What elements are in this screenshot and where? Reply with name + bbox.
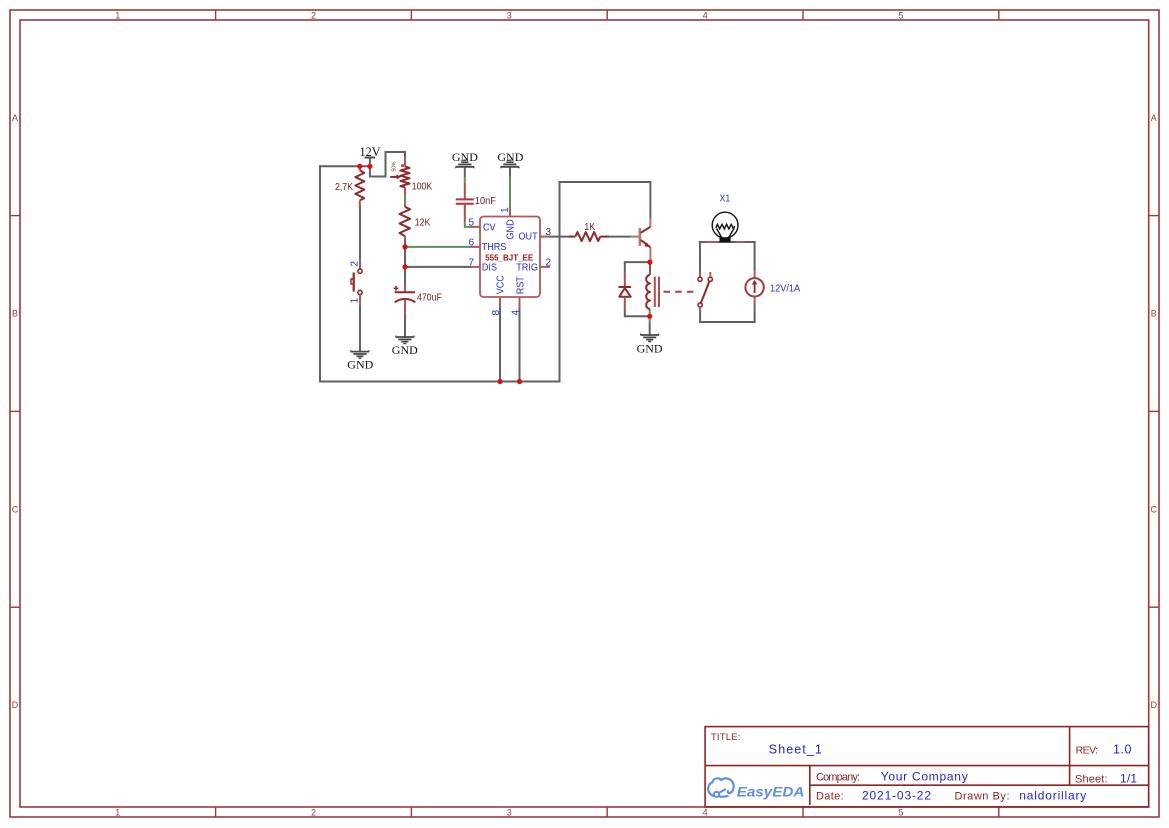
- svg-text:GND: GND: [347, 358, 373, 372]
- title block: [705, 727, 1149, 807]
- svg-text:Company:: Company:: [816, 771, 860, 783]
- svg-text:2: 2: [546, 257, 552, 268]
- svg-text:2: 2: [311, 808, 316, 818]
- wire 1K to base: [609, 236, 631, 238]
- svg-text:3: 3: [546, 227, 552, 238]
- wire bottom rail: [320, 381, 560, 383]
- wire coil top stub: [649, 262, 651, 272]
- svg-text:3: 3: [507, 11, 512, 21]
- svg-text:EasyEDA: EasyEDA: [737, 784, 805, 799]
- resistor 12K: [400, 207, 411, 236]
- IC U1 555 timer body: [480, 217, 540, 298]
- net labels GND: [347, 150, 663, 372]
- svg-text:B: B: [1151, 309, 1157, 319]
- svg-text:1: 1: [349, 298, 360, 304]
- junction dots: [357, 164, 652, 384]
- wire right feedback rail: [559, 182, 561, 382]
- svg-text:2: 2: [311, 11, 316, 21]
- svg-text:Sheet_1: Sheet_1: [769, 743, 822, 757]
- node THRS: [402, 244, 407, 249]
- svg-text:8: 8: [491, 310, 502, 316]
- svg-text:4: 4: [510, 310, 521, 316]
- wire pot-12K green: [404, 196, 406, 202]
- svg-text:naldorillary: naldorillary: [1019, 788, 1086, 802]
- svg-text:A: A: [12, 113, 18, 123]
- pin stubs 555: [470, 208, 550, 308]
- svg-text:GND: GND: [505, 219, 517, 239]
- svg-text:100K: 100K: [412, 181, 433, 193]
- wire 470uF to GND: [404, 315, 406, 337]
- wire top rail to collector: [560, 182, 651, 218]
- svg-text:5: 5: [898, 808, 903, 818]
- lamp X1: [712, 212, 738, 242]
- relay core: [655, 277, 659, 307]
- svg-text:1: 1: [115, 808, 120, 818]
- svg-text:CV: CV: [483, 222, 496, 234]
- ground switch: [351, 350, 370, 358]
- wire VCC down: [499, 308, 501, 382]
- svg-text:OUT: OUT: [518, 231, 537, 243]
- 555 chip texts: [482, 219, 538, 294]
- svg-text:A: A: [1151, 113, 1157, 123]
- svg-text:50%: 50%: [391, 161, 397, 171]
- 12V power symbol: [365, 157, 376, 159]
- wire RST down: [519, 308, 521, 382]
- svg-text:Sheet:: Sheet:: [1075, 774, 1108, 786]
- wire GND1 stub: [464, 167, 466, 177]
- svg-text:2,7K: 2,7K: [335, 181, 354, 193]
- wire lamp loop left: [699, 242, 701, 272]
- relay link dashes: [664, 291, 696, 293]
- svg-text:2: 2: [349, 261, 360, 267]
- svg-text:X1: X1: [720, 192, 731, 204]
- wire switch to GND: [359, 306, 361, 351]
- svg-text:1K: 1K: [584, 221, 595, 233]
- resistor 1K: [569, 236, 575, 238]
- svg-text:Date:: Date:: [816, 790, 844, 802]
- relay contact K1: [699, 272, 701, 277]
- node 12V-b: [367, 164, 372, 169]
- svg-text:D: D: [12, 700, 19, 710]
- svg-text:12V/1A: 12V/1A: [770, 283, 801, 295]
- svg-text:DIS: DIS: [482, 262, 498, 274]
- svg-text:C: C: [1150, 504, 1157, 514]
- wire relay GND stub: [649, 324, 651, 335]
- svg-text:4: 4: [703, 808, 708, 818]
- ground 470uF: [396, 336, 415, 344]
- svg-text:GND: GND: [452, 150, 478, 164]
- svg-text:C: C: [12, 504, 19, 514]
- svg-text:Your Company: Your Company: [881, 769, 968, 783]
- node VCC rail: [497, 379, 502, 384]
- wire lamp loop right upper: [754, 242, 756, 270]
- svg-text:6: 6: [468, 237, 474, 248]
- svg-text:5: 5: [898, 11, 903, 21]
- wire emitter node to diode: [625, 262, 650, 272]
- wire OUT to 1K: [550, 236, 569, 238]
- wire gnd2 green: [509, 176, 511, 208]
- wire lamp top rail: [700, 241, 755, 243]
- svg-text:1/1: 1/1: [1120, 772, 1137, 786]
- svg-text:5: 5: [468, 217, 474, 228]
- resistor R 2.7K: [359, 166, 361, 170]
- svg-text:2021-03-22: 2021-03-22: [862, 788, 931, 802]
- svg-text:RST: RST: [515, 276, 527, 294]
- wire 12V stub: [369, 158, 371, 167]
- svg-text:THRS: THRS: [482, 241, 507, 253]
- svg-text:7: 7: [468, 257, 474, 268]
- wire cap5 green: [465, 222, 470, 227]
- diode D1: [624, 272, 626, 288]
- wire 12K node column: [404, 240, 406, 284]
- ground 10nF flipped: [456, 160, 475, 168]
- capacitor 470uF: [404, 284, 406, 292]
- wire lamp loop right lower: [754, 305, 756, 322]
- node DIS: [402, 264, 407, 269]
- node 12V-a: [357, 164, 362, 169]
- ground symbols: [351, 160, 659, 358]
- svg-text:3: 3: [507, 808, 512, 818]
- svg-text:10nF: 10nF: [475, 195, 496, 207]
- svg-text:REV:: REV:: [1076, 745, 1099, 757]
- switch S1: [359, 258, 361, 269]
- value labels dark red: [335, 161, 596, 303]
- wire 2.7K to switch: [359, 206, 361, 259]
- svg-text:VCC: VCC: [495, 275, 507, 294]
- relay coil L1: [649, 272, 651, 275]
- transistor Q1: [630, 218, 650, 262]
- svg-text:TITLE:: TITLE:: [711, 732, 741, 743]
- component red strokes: [351, 157, 764, 316]
- svg-text:12V: 12V: [360, 145, 381, 159]
- pin numbers blue: [349, 207, 551, 316]
- node emitter: [647, 260, 652, 265]
- wire coil green bottom: [649, 309, 651, 323]
- svg-text:Drawn By:: Drawn By:: [955, 790, 1010, 802]
- wire diode bottom: [625, 311, 650, 317]
- node relay bottom: [647, 314, 652, 319]
- node RST rail: [517, 379, 522, 384]
- lamp lead segments: [705, 241, 744, 243]
- capacitor 10nF: [464, 182, 466, 199]
- svg-text:4: 4: [703, 11, 708, 21]
- wire left rail: [319, 166, 321, 381]
- potentiometer 100K: [404, 157, 406, 167]
- svg-text:TRIG: TRIG: [516, 262, 538, 274]
- svg-text:B: B: [12, 309, 18, 319]
- svg-text:1: 1: [115, 11, 120, 21]
- ground 555 flipped: [501, 160, 520, 168]
- EasyEDA logo: [708, 778, 804, 799]
- wire top-left horizontal: [320, 165, 370, 167]
- wire THRS green: [405, 246, 470, 248]
- wire cap5 green top: [464, 177, 466, 182]
- svg-text:555_BJT_EE: 555_BJT_EE: [485, 254, 534, 263]
- wire DIS: [405, 266, 470, 268]
- svg-text:1: 1: [500, 207, 511, 213]
- wire lamp bottom rail: [700, 312, 755, 322]
- svg-text:12K: 12K: [415, 217, 431, 229]
- svg-text:1.0: 1.0: [1113, 743, 1131, 757]
- wires green: [405, 176, 650, 323]
- svg-text:GND: GND: [497, 150, 523, 164]
- wire 12V jog: [370, 152, 405, 177]
- svg-text:GND: GND: [637, 342, 663, 356]
- svg-text:GND: GND: [392, 343, 418, 357]
- svg-text:470uF: 470uF: [417, 292, 442, 304]
- wires gray: [320, 152, 755, 382]
- ground relay: [640, 334, 659, 342]
- wire GND2 stub: [509, 167, 511, 176]
- current source V1: [754, 270, 756, 278]
- svg-text:D: D: [1150, 700, 1157, 710]
